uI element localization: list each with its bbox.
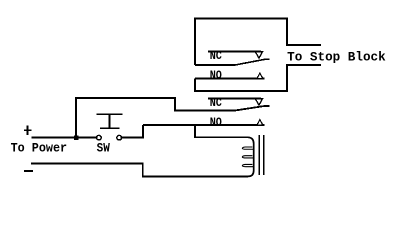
svg-text:NC: NC	[210, 97, 222, 110]
pushbutton SW: right terminal circle	[117, 135, 122, 140]
pushbutton SW: movable bar	[100, 127, 120, 129]
svg-text:NO: NO	[210, 69, 222, 82]
wire: from + junction up and over to relay set 2 common arm	[76, 98, 270, 138]
contact NC triangle (set 2)	[255, 99, 262, 106]
contact NO triangle (set 1)	[257, 73, 263, 78]
terminal + symbol	[24, 126, 32, 135]
pushbutton SW: stem	[109, 114, 111, 128]
coil loop 3	[242, 164, 254, 166]
svg-text:NO: NO	[210, 116, 222, 129]
relay coil body (right side with rounded ends)	[248, 137, 254, 176]
contact NO triangle (set 2)	[257, 120, 263, 125]
wire: - return to relay coil bottom	[31, 163, 248, 176]
wire: relay set 1 NC terminal stub	[208, 51, 261, 53]
pushbutton SW: cap bar	[97, 113, 123, 115]
wire: top loop from relay K1 common (set 1) up and over to stop block stub A	[195, 19, 321, 66]
wire: relay contact set 1 movable arm (common)	[195, 59, 270, 65]
terminal - symbol	[24, 170, 33, 172]
svg-text:SW: SW	[97, 141, 111, 155]
wire: set 2 NO line down to relay coil top	[195, 125, 248, 137]
wire: + feed to switch SW	[32, 137, 97, 139]
contact NC triangle (set 1)	[255, 52, 262, 59]
wire: relay set 2 NO terminal line	[143, 124, 265, 126]
wire: switch to set 2 NO line	[121, 125, 143, 138]
svg-text:To Power: To Power	[11, 141, 68, 155]
wire: relay set 2 NC terminal stub	[208, 98, 261, 100]
coil loop 1	[242, 147, 254, 149]
wire: U loop from set 1 NO terminal to stop block stub B	[195, 65, 321, 91]
coil loop 2	[242, 156, 254, 158]
wire: relay set 1 NO terminal line	[195, 78, 265, 80]
junction dot at + feed / set 2 common tap	[74, 136, 78, 140]
pushbutton SW: left terminal circle	[97, 135, 102, 140]
relay core line 1	[258, 135, 260, 175]
relay core line 2	[263, 135, 265, 175]
svg-text:NC: NC	[210, 50, 222, 63]
svg-text:To Stop Block: To Stop Block	[287, 51, 386, 65]
